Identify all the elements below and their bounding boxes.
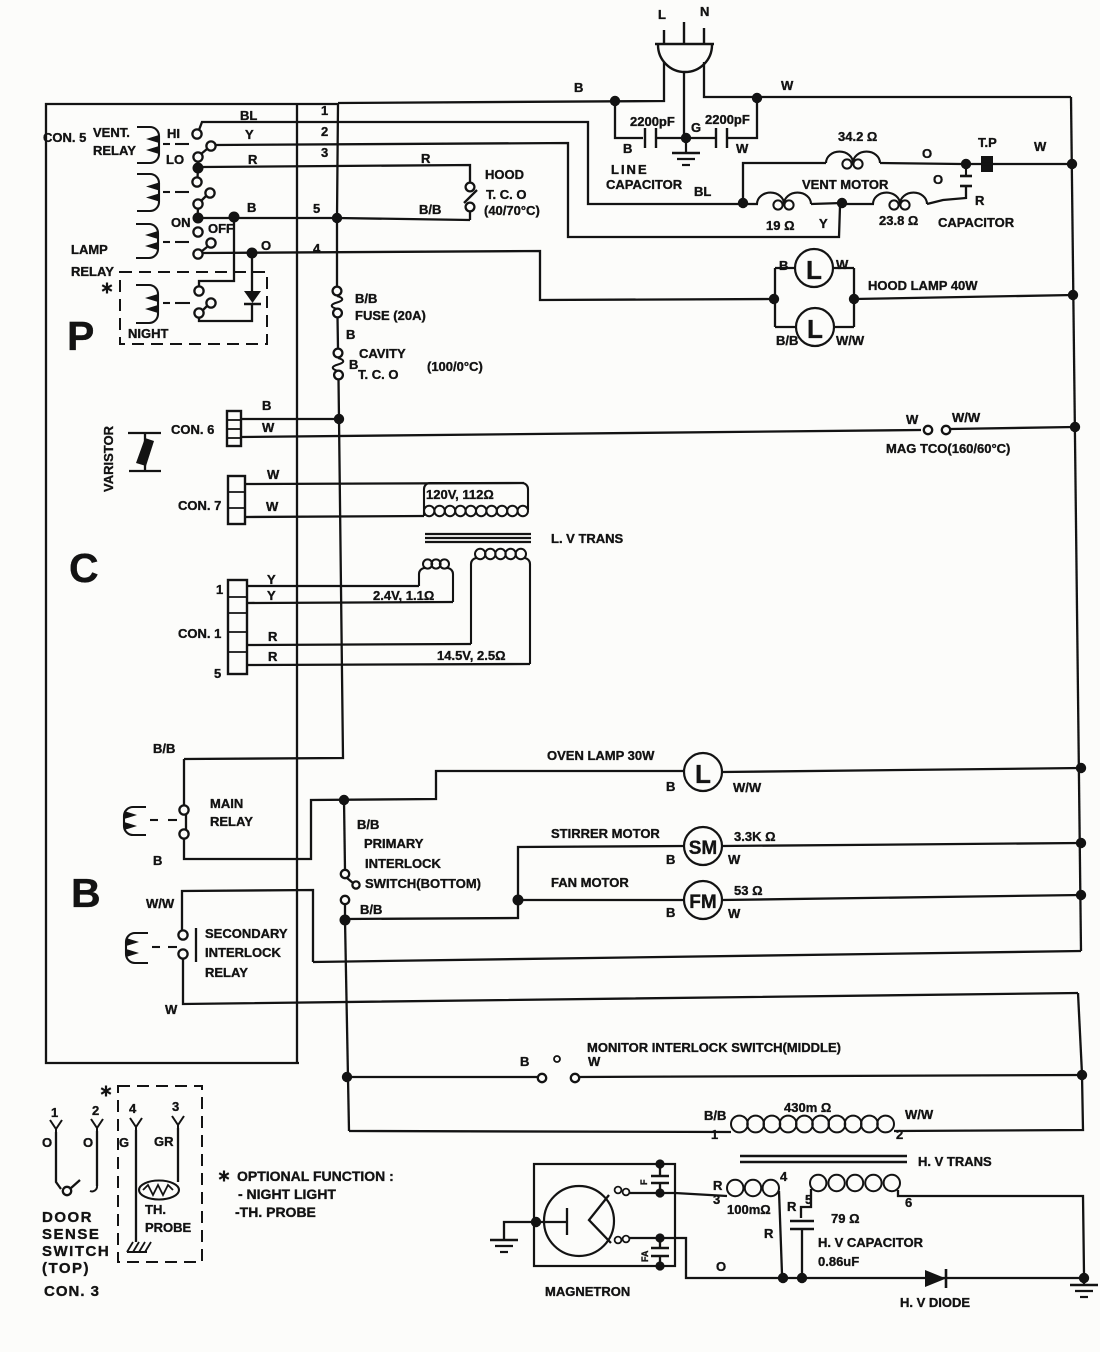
svg-text:2.4V, 1.1Ω: 2.4V, 1.1Ω [373,588,434,603]
capacitor 2200pF right [688,98,757,156]
svg-text:W: W [781,78,794,93]
thermal protector T.P [978,135,997,172]
svg-text:1: 1 [51,1105,58,1120]
svg-text:NIGHT: NIGHT [128,326,169,341]
svg-text:B/B: B/B [776,333,798,348]
door switch pin2 lead [90,1119,103,1191]
wire vent top to TP [880,163,961,164]
svg-text:G: G [119,1135,129,1150]
svg-text:CON. 6: CON. 6 [171,422,214,437]
svg-text:BL: BL [240,108,257,123]
node ON [193,213,204,224]
thermal cutout cavity TCO [333,346,406,382]
svg-text:RELAY: RELAY [205,965,248,980]
svg-text:Y: Y [267,588,276,603]
contact primary interlock lower [341,896,349,904]
svg-text:CAPACITOR: CAPACITOR [606,177,683,192]
wire W/W top [182,890,313,962]
wire HV primary feed [349,1131,731,1132]
svg-text:N: N [700,4,709,19]
svg-text:PRIMARY: PRIMARY [364,836,424,851]
transformer HV core [740,1156,907,1162]
contact lamp switch top [193,227,202,236]
door switch pin1 lead [50,1120,62,1189]
svg-text:B/B: B/B [357,817,379,832]
wire vent motor top feed [743,163,826,203]
th probe pin3 lead [172,1116,184,1182]
svg-text:RELAY: RELAY [210,814,253,829]
wire mag tco to right bus [950,427,1074,429]
contact main relay top [179,805,188,814]
node magnetron case left [531,1217,541,1227]
magnetron filament bottom lead [615,1236,660,1244]
svg-text:(100/0°C): (100/0°C) [427,359,483,374]
inductor HV secondary 100m [727,1169,788,1217]
svg-text:W/W: W/W [146,896,175,911]
svg-text:LO: LO [166,152,184,167]
contact lamp switch bottom [193,249,202,258]
wire HV primary return [894,1075,1083,1131]
contact LO [193,152,202,161]
contact Y [206,141,215,150]
svg-text:MAIN: MAIN [210,796,243,811]
magnetron case [534,1164,675,1266]
svg-text:OPTIONAL FUNCTION :: OPTIONAL FUNCTION : [237,1168,394,1184]
wire TP to right bus [966,163,1072,165]
node bus-B-row junction [332,213,342,223]
wire BL dot to 19 coil [743,203,758,205]
magnetron tube [536,1186,630,1299]
wire row4 O [202,251,772,300]
wire row3 R [202,165,470,183]
svg-text:SWITCH(BOTTOM): SWITCH(BOTTOM) [365,876,481,891]
primary interlock switch [341,800,481,891]
svg-text:R: R [787,1199,797,1214]
svg-text:FA: FA [640,1250,650,1262]
svg-text:HOOD LAMP 40W: HOOD LAMP 40W [868,278,978,293]
contact night mid [206,298,215,307]
node HV sec to O line [778,1273,788,1283]
svg-text:R: R [764,1226,774,1241]
wire CON7 W bottom [245,516,424,517]
svg-text:4: 4 [313,241,321,256]
svg-text:Y: Y [267,572,276,587]
svg-text:W: W [266,499,279,514]
svg-text:CAPACITOR: CAPACITOR [938,215,1015,230]
transformer LV secondary 14.5V [437,549,530,664]
varistor [128,433,161,471]
node right bus fan [1076,890,1086,900]
switch blade vent hi-lo [201,149,207,154]
wire bus mid [336,317,339,349]
svg-text:L: L [806,255,822,285]
svg-text:MAG TCO(160/60°C): MAG TCO(160/60°C) [886,441,1010,456]
svg-text:W: W [588,1054,601,1069]
svg-text:L: L [807,314,823,344]
wire relay2 to ON node [196,208,199,218]
svg-text:2: 2 [321,124,328,139]
svg-text:H. V CAPACITOR: H. V CAPACITOR [818,1235,924,1250]
capacitor vent motor run [933,164,1015,230]
svg-text:W: W [906,412,919,427]
svg-text:Y: Y [245,127,254,142]
node HV cap to O line [797,1273,807,1283]
switch blade night [202,306,207,311]
svg-text:MONITOR INTERLOCK SWITCH(MIDDL: MONITOR INTERLOCK SWITCH(MIDDLE) [587,1040,841,1055]
ground magnetron [490,1239,518,1241]
svg-text:CON. 7: CON. 7 [178,498,221,513]
wire monitor loop right edge [1078,993,1082,1074]
svg-text:P: P [67,313,94,359]
node vent cap junction [837,198,847,208]
feedthrough capacitor FA [640,1238,669,1266]
svg-text:SENSE: SENSE [42,1226,100,1243]
wire B node to night switch [199,217,234,287]
contact fixed bar [195,928,197,962]
svg-text:FUSE (20A): FUSE (20A) [355,308,426,323]
wire CON1 R2 [247,664,530,665]
svg-text:2: 2 [92,1103,99,1118]
svg-text:B/B: B/B [355,291,377,306]
node O-row junction [247,248,258,259]
svg-text:3: 3 [713,1192,720,1207]
svg-text:1: 1 [321,103,328,118]
contact door switch [63,1187,71,1195]
svg-text:H. V DIODE: H. V DIODE [900,1295,970,1310]
node monitor left junction [342,1072,352,1082]
svg-text:B: B [71,870,101,916]
wire row1 BL [199,122,740,204]
svg-text:3: 3 [172,1099,179,1114]
wire oven lamp to right bus [722,768,1081,772]
wire magnetron cathode to ground [504,1222,536,1239]
wire right bus [1071,97,1081,951]
transformer LV core [425,534,531,542]
svg-text:4: 4 [780,1169,788,1184]
wire B/B to stirrer-fan bus [345,846,684,919]
svg-text:C: C [69,545,99,591]
svg-text:W/W: W/W [836,333,865,348]
svg-text:W: W [728,852,741,867]
wire R node down [196,168,199,178]
wire interlock lower to node [344,904,346,920]
svg-text:53 Ω: 53 Ω [734,883,763,898]
contact main relay bottom [179,829,188,838]
wire W bottom [183,958,1078,1004]
wire CON6 W to mag tco [241,430,921,437]
th probe dashed box [118,1086,202,1262]
wire monitor line left [347,1076,538,1078]
wire hood tco return [337,218,470,220]
svg-text:FAN MOTOR: FAN MOTOR [551,875,629,890]
svg-text:SWITCH: SWITCH [42,1243,110,1260]
lamp hood top 40W [775,249,854,287]
wire hood tco bottom [469,211,471,220]
diode HV [900,1269,970,1310]
svg-text:OVEN LAMP 30W: OVEN LAMP 30W [547,748,655,763]
svg-text:R: R [248,152,258,167]
node vent motor left [738,198,748,208]
wire LO to R node [197,161,199,168]
main relay armature [185,814,187,830]
svg-text:L. V TRANS: L. V TRANS [551,531,624,546]
contact night bottom [194,308,203,317]
contact secondary relay top [178,930,187,939]
svg-text:PROBE: PROBE [145,1220,192,1235]
svg-text:14.5V, 2.5Ω: 14.5V, 2.5Ω [437,648,506,663]
svg-text:3.3K Ω: 3.3K Ω [734,829,776,844]
svg-text:SECONDARY: SECONDARY [205,926,288,941]
svg-text:DOOR: DOOR [42,1209,93,1226]
svg-text:B/B: B/B [153,741,175,756]
svg-text:O: O [42,1135,52,1150]
contact night top [194,286,203,295]
svg-text:5: 5 [313,201,320,216]
motor stirrer SM [666,827,776,867]
svg-text:SM: SM [689,838,718,859]
node feedthrough top case [655,1159,664,1168]
node TP junction [961,159,971,169]
wire filament winding left end [801,1189,811,1218]
inductor vent motor main 34.2 [826,129,880,169]
switch blade lamp [202,247,207,251]
svg-text:VENT.: VENT. [93,125,130,140]
capacitor HV 0.86uF [764,1221,924,1274]
transformer LV primary 120V [424,483,528,516]
svg-text:LINE: LINE [611,162,649,177]
svg-text:19 Ω: 19 Ω [766,218,795,233]
svg-text:B: B [349,357,358,372]
svg-text:W/W: W/W [733,780,762,795]
feedthrough capacitor F [639,1164,669,1193]
svg-text:CAVITY: CAVITY [359,346,406,361]
wire filament winding right end [898,1190,1084,1274]
hood lamp bracket left [774,268,776,327]
vent relay coil LO [137,174,189,211]
contact HI [192,129,201,138]
svg-text:ON: ON [171,215,191,230]
svg-text:34.2 Ω: 34.2 Ω [838,129,877,144]
svg-text:RELAY: RELAY [93,143,136,158]
switch blade door [71,1180,80,1188]
svg-text:2200pF: 2200pF [630,114,675,129]
inductor vent motor aux 19 [757,193,811,233]
svg-text:B: B [623,141,632,156]
node feedthrough bottom case [655,1261,664,1270]
wire O magnetron [660,1238,1084,1278]
wire O node to diode [251,253,253,292]
svg-text:H. V TRANS: H. V TRANS [918,1154,992,1169]
wire fan to right bus [722,895,1081,900]
svg-text:1: 1 [216,582,223,597]
wire bus lower [184,379,343,759]
svg-text:B: B [262,398,271,413]
svg-text:120V, 112Ω: 120V, 112Ω [426,487,494,502]
svg-text:STIRRER MOTOR: STIRRER MOTOR [551,826,660,841]
diode night light [244,291,261,304]
svg-text:W: W [165,1002,178,1017]
contact relay2 bottom [193,199,202,208]
svg-text:B/B: B/B [360,902,382,917]
node feedthrough bottom wire [655,1233,664,1242]
wire CON1 Y1 [247,585,419,587]
vent relay coil HI [137,127,189,163]
svg-text:O: O [922,146,932,161]
contact secondary relay bottom [178,949,187,958]
svg-text:79 Ω: 79 Ω [831,1211,860,1226]
svg-text:100mΩ: 100mΩ [727,1202,771,1217]
svg-text:OFF: OFF [208,221,234,236]
svg-text:O: O [83,1135,93,1150]
label optional star [106,283,108,294]
contact lamp switch mid [206,238,215,247]
svg-text:VENT MOTOR: VENT MOTOR [802,177,889,192]
svg-text:B/B: B/B [419,202,441,217]
svg-text:B: B [574,80,583,95]
svg-text:B: B [153,853,162,868]
svg-text:B/B: B/B [704,1108,726,1123]
wire B from plug to bus [338,62,664,103]
svg-text:T.P: T.P [978,135,997,150]
svg-text:4: 4 [129,1101,137,1116]
svg-text:6: 6 [905,1195,912,1210]
svg-text:TH.: TH. [145,1202,166,1217]
label star door [105,1086,107,1097]
lamp hood bottom 40W [775,308,865,348]
svg-text:B: B [666,779,675,794]
svg-text:R: R [268,649,278,664]
lamp oven 30W [666,753,762,795]
svg-text:R: R [975,193,985,208]
inductor vent motor aux 23.8 [873,193,927,228]
magnetron filament top lead [615,1187,676,1196]
contact relay2 top [192,177,201,186]
svg-text:(TOP): (TOP) [42,1260,90,1277]
svg-text:T. C. O: T. C. O [486,187,526,202]
node monitor right junction [1077,1070,1087,1080]
node right bus stirrer [1076,838,1086,848]
wire CON6 B to bus [241,418,339,420]
svg-text:O: O [716,1259,726,1274]
svg-text:L: L [695,759,711,789]
wire hood lamp to right bus [854,295,1073,299]
wire fan return [313,951,1081,962]
inductor HV filament 79 [787,1175,912,1226]
svg-text:B: B [666,852,675,867]
svg-text:W/W: W/W [905,1107,934,1122]
svg-text:MAGNETRON: MAGNETRON [545,1284,630,1299]
ground line capacitor [672,138,700,165]
left panel outline [46,104,338,1063]
wire CON7 W top [245,483,524,484]
svg-text:L: L [658,7,666,22]
svg-text:FM: FM [689,892,716,913]
svg-text:R: R [268,629,278,644]
svg-text:(40/70°C): (40/70°C) [484,203,540,218]
svg-text:HOOD: HOOD [485,167,524,182]
wire CON1 R1 [247,644,471,645]
wire night bottom to diode [199,305,252,321]
thermal cutout hood TCO [464,183,477,212]
wire monitor line right [579,1075,1082,1077]
wire CON1 Y2 [247,602,453,603]
connector CON.6 [171,411,241,446]
node hood lamp right [849,294,859,304]
node primary interlock junction [339,795,349,805]
contact relay2 mid [205,188,214,197]
svg-text:B: B [779,258,788,273]
svg-text:CON. 5: CON. 5 [43,130,86,145]
node right bus TP [1067,159,1077,169]
node bus-CON6 junction [334,414,344,424]
wire bus to monitor line [345,920,349,1131]
motor fan FM [666,881,763,921]
wire HV secondary 3 [675,1193,727,1196]
wire to main relay top contact [183,759,185,806]
svg-text:INTERLOCK: INTERLOCK [365,856,441,871]
svg-text:2200pF: 2200pF [705,112,750,127]
th probe pin4 lead [130,1118,142,1242]
svg-text:R: R [713,1178,723,1193]
capacitor 2200pF left [615,101,684,156]
wire row2 Y [215,143,840,237]
svg-text:GR: GR [154,1134,174,1149]
night light dashed box [120,272,267,344]
node R row [193,163,204,174]
power plug [655,4,714,72]
svg-text:W: W [736,141,749,156]
svg-text:-TH. PROBE: -TH. PROBE [235,1204,316,1220]
svg-text:W: W [836,257,849,272]
wire main relay output [184,771,684,859]
wire 19 coil to cap node [811,203,842,204]
svg-text:2: 2 [896,1127,903,1142]
node B/B lower junction [340,915,351,926]
node fan branch [513,895,524,906]
svg-text:- NIGHT LIGHT: - NIGHT LIGHT [238,1186,336,1202]
wire main bus upper [337,104,338,286]
node W junction [752,93,762,103]
wire 23.8 coil to capacitor [927,187,966,204]
night relay coil [136,285,190,323]
svg-text:T. C. O: T. C. O [358,367,398,382]
svg-text:430m Ω: 430m Ω [784,1100,831,1115]
node B-row mid junction [229,212,240,223]
wire HV secondary 4 down [779,1191,782,1274]
wire row5 B [198,217,337,219]
svg-text:RELAY: RELAY [71,264,114,279]
svg-text:O: O [261,238,271,253]
node right bus oven lamp [1076,763,1086,773]
node hood lamp left [769,294,779,304]
thermistor probe bulb [139,1181,179,1200]
wire plug ground prong [683,71,685,138]
svg-text:W/W: W/W [952,410,981,425]
chassis ground th probe [127,1242,151,1252]
svg-text:W: W [267,467,280,482]
switch blade relay2 [201,196,206,201]
svg-text:O: O [933,172,943,187]
svg-text:G: G [691,120,701,135]
svg-text:W: W [1034,139,1047,154]
node B junction [610,96,620,106]
label OPTIONAL FUNCTION [219,1168,394,1220]
svg-text:R: R [421,151,431,166]
node G [681,133,691,143]
svg-text:0.86uF: 0.86uF [818,1254,859,1269]
svg-text:B: B [346,327,355,342]
svg-text:B: B [520,1054,529,1069]
